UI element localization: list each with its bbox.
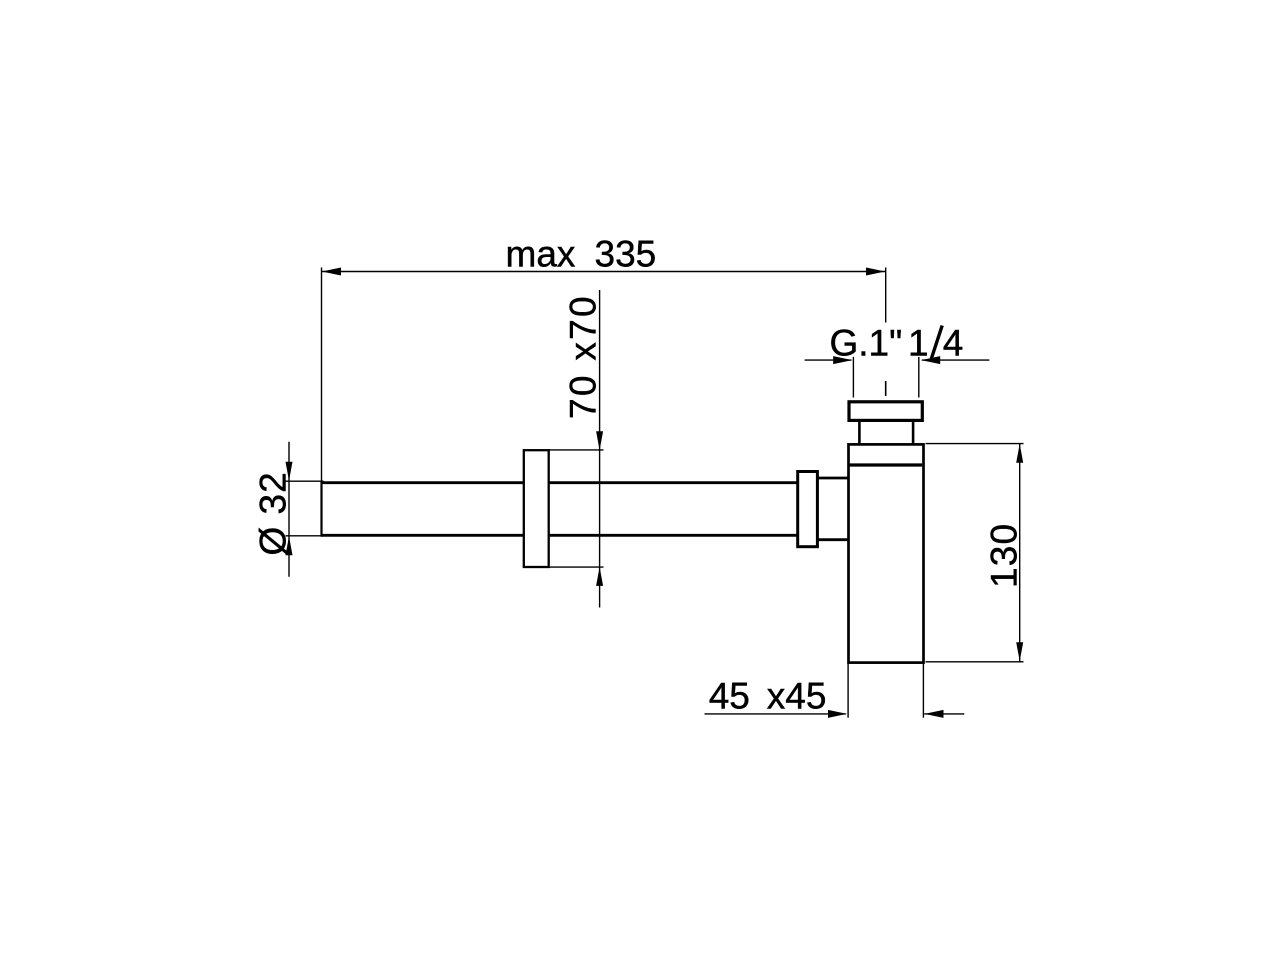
svg-text:4: 4 <box>943 323 964 364</box>
svg-text:70 x70: 70 x70 <box>563 294 604 419</box>
svg-text:Ø 32: Ø 32 <box>253 471 294 555</box>
svg-text:335: 335 <box>595 234 657 275</box>
svg-text:max: max <box>506 234 576 275</box>
svg-text:130: 130 <box>984 523 1025 588</box>
svg-text:1: 1 <box>908 323 929 364</box>
svg-text:45: 45 <box>709 675 750 716</box>
svg-text:G.1": G.1" <box>830 323 903 364</box>
svg-text:x45: x45 <box>767 675 827 716</box>
